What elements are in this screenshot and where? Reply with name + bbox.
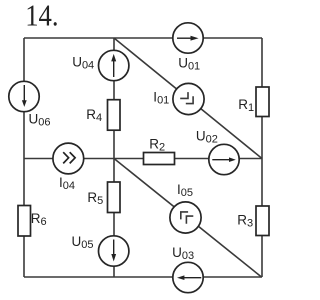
resistor R6: [18, 206, 31, 237]
svg-text:R1: R1: [238, 97, 254, 114]
svg-text:U03: U03: [172, 245, 194, 262]
source U05: [99, 236, 129, 266]
resistor R4: [108, 100, 121, 131]
resistor R3: [256, 206, 269, 236]
current source I04: [53, 143, 84, 174]
wire right border: [261, 38, 263, 277]
svg-text:U04: U04: [72, 55, 94, 72]
svg-text:14.: 14.: [25, 0, 58, 33]
wire left border: [23, 38, 25, 277]
svg-text:U06: U06: [29, 112, 51, 129]
svg-text:I05: I05: [177, 182, 193, 199]
wire diagonal center to bottom-right (I05 branch): [114, 159, 262, 278]
wire middle horizontal: [24, 158, 262, 160]
svg-text:R5: R5: [87, 190, 103, 207]
svg-text:R2: R2: [149, 137, 165, 154]
wire middle vertical: [113, 38, 115, 277]
svg-text:I01: I01: [153, 90, 169, 107]
svg-text:R4: R4: [86, 107, 102, 124]
resistor R1: [256, 87, 269, 117]
source U01: [173, 23, 203, 53]
svg-text:U02: U02: [196, 128, 218, 145]
wire diagonal node top to right (I01 branch): [114, 38, 262, 159]
resistor R5: [108, 182, 121, 213]
svg-text:U01: U01: [178, 56, 200, 73]
current source I05: [170, 202, 201, 233]
source U02: [209, 144, 239, 174]
source U03: [173, 262, 203, 292]
source U04: [99, 50, 129, 80]
svg-text:I04: I04: [59, 175, 75, 192]
svg-text:U05: U05: [72, 234, 94, 251]
source U06: [9, 81, 39, 111]
resistor R2: [144, 153, 175, 165]
svg-text:R6: R6: [31, 211, 47, 228]
svg-text:R3: R3: [237, 212, 253, 229]
current source I01: [173, 83, 204, 114]
wire top border: [24, 37, 262, 39]
wire bottom border: [24, 276, 262, 278]
